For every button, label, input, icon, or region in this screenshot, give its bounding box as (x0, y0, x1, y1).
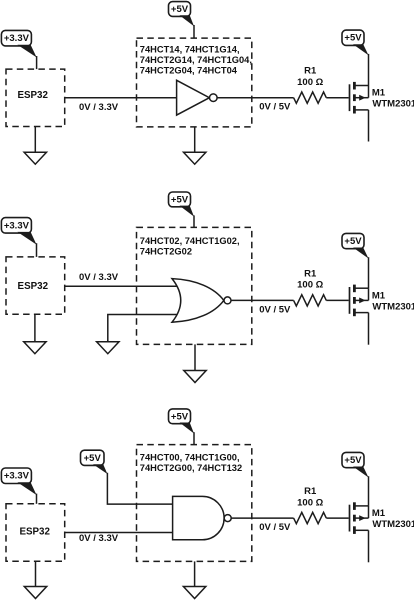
wire +5V flag to IC box (section 1) (193, 25, 195, 38)
IC boundary box 74HCT02 (section 2) (137, 227, 252, 344)
wire M1 drain output (section 1) (368, 110, 370, 142)
svg-text:M1: M1 (372, 88, 386, 99)
svg-text:+5V: +5V (344, 455, 362, 466)
svg-text:74HCT2G04, 74HCT04: 74HCT2G04, 74HCT04 (140, 65, 238, 75)
power flag +5V M1 source (section 1) (342, 30, 369, 55)
wire ESP32 out to NOR input A, net 0V/3.3V (section 2) (65, 285, 180, 287)
power flag +3.3V ESP32 supply (section 2) (1, 218, 36, 245)
power flag +3.3V ESP32 supply (section 3) (1, 468, 36, 495)
ESP32 module box (section 1) (6, 69, 65, 126)
svg-text:74HCT2G02: 74HCT2G02 (140, 247, 192, 257)
svg-text:ESP32: ESP32 (18, 281, 49, 292)
wire +3.3V flag to ESP32 (section 1) (36, 56, 38, 69)
svg-text:0V / 3.3V: 0V / 3.3V (79, 272, 119, 283)
IC boundary box 74HCT00 (section 3) (137, 445, 252, 562)
svg-text:74HCT14, 74HCT1G14,: 74HCT14, 74HCT1G14, (140, 44, 240, 54)
svg-text:0V / 5V: 0V / 5V (259, 304, 291, 315)
svg-text:WTM2301: WTM2301 (372, 99, 414, 110)
ground IC ground (section 3) (183, 561, 205, 598)
resistor R1 (section 2) (294, 295, 327, 306)
svg-text:R1: R1 (304, 268, 317, 279)
wire M1 drain output (section 2) (368, 313, 370, 345)
wire ESP32 out to NAND input B, net 0V/3.3V (section 3) (65, 532, 173, 534)
svg-text:ESP32: ESP32 (17, 90, 48, 101)
transistor M1 WTM2301 (section 1) (350, 82, 369, 114)
svg-text:0V / 5V: 0V / 5V (259, 102, 291, 113)
wire +5V to NAND input A (section 3) (107, 473, 172, 504)
svg-text:100 Ω: 100 Ω (297, 497, 323, 508)
wire +3.3V flag to ESP32 (section 2) (36, 243, 38, 257)
wire NAND output to R1, net 0V/5V (section 3) (231, 517, 293, 519)
NOR gate U2 (74HCT02) (172, 279, 231, 323)
svg-text:R1: R1 (304, 486, 317, 497)
transistor M1 WTM2301 (section 2) (350, 285, 369, 317)
ESP32 module box (section 3) (6, 504, 65, 561)
svg-text:+5V: +5V (344, 33, 362, 44)
svg-text:74HCT2G14, 74HCT1G04,: 74HCT2G14, 74HCT1G04, (140, 55, 252, 65)
ESP32 module box (section 2) (6, 257, 65, 314)
resistor R1 (section 1) (294, 92, 327, 103)
ground NOR input B ground (section 2) (97, 340, 119, 354)
wire +5V flag to IC box (section 2) (193, 215, 195, 227)
wire +3.3V flag to ESP32 (section 3) (36, 494, 38, 504)
wire R1 to M1 gate (section 2) (326, 299, 348, 301)
svg-text:M1: M1 (372, 290, 386, 301)
ground ESP32 ground (section 3) (24, 561, 46, 598)
svg-text:R1: R1 (304, 66, 317, 77)
power flag +5V IC supply (section 1) (169, 2, 195, 27)
svg-text:M1: M1 (372, 508, 386, 519)
svg-text:ESP32: ESP32 (19, 526, 50, 537)
IC boundary box 74HCT14 (section 1) (137, 38, 252, 127)
ground ESP32 ground (section 1) (24, 127, 46, 165)
svg-text:74HCT02, 74HCT1G02,: 74HCT02, 74HCT1G02, (140, 236, 240, 246)
wire +5V flag to M1 source (section 2) (368, 257, 370, 288)
resistor R1 (section 3) (294, 512, 327, 523)
svg-text:+5V: +5V (171, 4, 189, 15)
NAND gate U3 (74HCT00) (173, 496, 232, 539)
svg-text:+3.3V: +3.3V (4, 471, 30, 482)
transistor M1 WTM2301 (section 3) (350, 502, 369, 534)
svg-text:100 Ω: 100 Ω (297, 280, 323, 291)
wire R1 to M1 gate (section 3) (326, 517, 348, 519)
wire NOR input B to ground (section 2) (108, 315, 180, 342)
wire +5V flag to IC box (section 3) (193, 432, 195, 444)
ground IC ground (section 1) (184, 127, 206, 164)
svg-text:74HCT00, 74HCT1G00,: 74HCT00, 74HCT1G00, (140, 453, 240, 463)
wire R1 to M1 gate (section 1) (326, 97, 348, 99)
wire ESP32 out to inverter input, net 0V/3.3V (section 1) (65, 97, 178, 99)
wire inverter output to R1, net 0V/5V (section 1) (217, 97, 294, 99)
power flag +5V NAND input A (section 3) (81, 450, 108, 474)
svg-text:0V / 3.3V: 0V / 3.3V (79, 533, 119, 544)
power flag +5V M1 source (section 3) (342, 452, 369, 477)
svg-text:0V / 5V: 0V / 5V (259, 522, 291, 533)
svg-text:0V / 3.3V: 0V / 3.3V (79, 102, 119, 113)
svg-text:+5V: +5V (84, 453, 102, 464)
svg-text:WTM2301: WTM2301 (372, 301, 414, 312)
svg-text:+3.3V: +3.3V (4, 220, 30, 231)
power flag +5V M1 source (section 2) (342, 233, 369, 258)
power flag +3.3V ESP32 supply (section 1) (1, 30, 36, 57)
svg-text:74HCT2G00, 74HCT132: 74HCT2G00, 74HCT132 (140, 463, 242, 473)
wire M1 drain output (section 3) (368, 530, 370, 562)
wire +5V flag to M1 source (section 3) (368, 476, 370, 506)
wire +5V flag to M1 source (section 1) (368, 54, 370, 86)
inverter gate U1 (74HCT14) (177, 80, 218, 115)
svg-text:100 Ω: 100 Ω (297, 77, 323, 88)
svg-text:+5V: +5V (344, 236, 362, 247)
ground IC ground (section 2) (184, 344, 206, 382)
power flag +5V IC supply (section 2) (169, 192, 195, 217)
wire NOR output to R1, net 0V/5V (section 2) (231, 299, 294, 301)
svg-text:WTM2301: WTM2301 (372, 519, 414, 530)
svg-text:+5V: +5V (171, 411, 189, 422)
ground ESP32 ground (section 2) (24, 314, 46, 353)
power flag +5V IC supply (section 3) (169, 409, 195, 434)
svg-text:+3.3V: +3.3V (4, 33, 30, 44)
svg-text:+5V: +5V (171, 194, 189, 205)
